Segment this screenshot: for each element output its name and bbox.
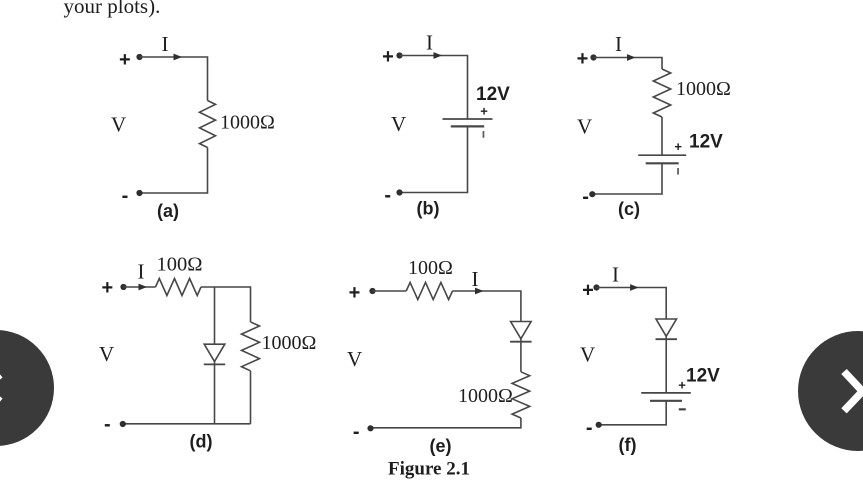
svg-text:-: - (122, 185, 129, 207)
svg-text:I: I (612, 263, 619, 287)
node dot + terminal (c) (590, 54, 596, 60)
svg-text:+: + (382, 46, 394, 68)
diode D3 (f) (656, 319, 678, 339)
node dot + terminal (a) (136, 54, 142, 60)
label + polarity B2 (674, 139, 682, 154)
svg-text:(b): (b) (417, 199, 440, 219)
svg-text:12V: 12V (689, 132, 723, 153)
label V source (c) (577, 115, 592, 139)
wire bottom (a) (140, 148, 208, 194)
node dot - terminal (f) (596, 422, 602, 428)
label + polarity B1 (480, 104, 488, 119)
svg-text:(d): (d) (190, 432, 213, 452)
node + terminal (d) (101, 277, 113, 299)
resistor R3 100&#937; (d) (156, 279, 202, 296)
battery B1 12V (b) (443, 119, 493, 126)
node dot - terminal (d) (120, 421, 126, 427)
wire right branch down (d) (250, 371, 252, 424)
svg-text:(a): (a) (157, 201, 179, 221)
svg-text:100Ω: 100Ω (408, 257, 453, 279)
label 12V value B2 (689, 132, 723, 153)
svg-text:I: I (426, 31, 433, 55)
label 1000&#937; value R4 (262, 332, 317, 354)
svg-text:-: - (582, 186, 589, 208)
svg-text:V: V (347, 347, 362, 371)
svg-text:I: I (162, 32, 169, 56)
wire top (b) (400, 56, 468, 120)
wire below D2 (e) (520, 339, 522, 372)
node + terminal (c) (577, 48, 589, 70)
wire top (f) (597, 288, 667, 320)
label - polarity B1 (483, 131, 485, 138)
node - terminal (a) (122, 185, 129, 207)
svg-text:1000Ω: 1000Ω (220, 112, 275, 134)
label 12V value B1 (476, 84, 510, 105)
node - terminal (f) (586, 417, 593, 439)
node - terminal (d) (104, 414, 111, 436)
node dot - terminal (b) (396, 189, 402, 195)
battery B3 12V (f) (641, 393, 691, 401)
label + polarity B3 (678, 377, 686, 392)
label V source (b) (391, 112, 406, 136)
label V source (f) (580, 343, 595, 367)
node dot + terminal (f) (593, 284, 599, 290)
wire below D1 (d) (214, 361, 216, 424)
svg-text:+: + (101, 277, 113, 299)
diode D2 (e) (510, 322, 531, 342)
svg-text:-: - (353, 421, 360, 443)
svg-text:+: + (349, 282, 361, 304)
node + terminal (e) (349, 282, 361, 304)
label (d) (190, 432, 213, 452)
resistor R1 1000&#937; (a) (200, 101, 216, 148)
resistor R5 100&#937; (e) (406, 282, 452, 299)
label I current (d) (138, 260, 145, 284)
svg-text:+: + (678, 377, 686, 392)
label V source (d) (99, 342, 114, 366)
svg-text:(f): (f) (619, 435, 637, 455)
label 12V value B3 (686, 366, 720, 387)
svg-text:I: I (472, 267, 479, 291)
carousel next button (798, 331, 863, 451)
svg-text:Figure 2.1: Figure 2.1 (388, 459, 470, 480)
svg-text:1000Ω: 1000Ω (458, 385, 513, 407)
svg-text:V: V (580, 343, 595, 367)
node dot - terminal (a) (136, 190, 142, 196)
label I current (e) (472, 267, 479, 291)
wire top right (d) (201, 287, 251, 322)
label 1000&#937; value R1 (220, 112, 275, 134)
node dot + terminal (b) (396, 52, 402, 58)
label I current (b) (426, 31, 433, 55)
svg-text:I: I (138, 260, 145, 284)
wire top right (e) (453, 291, 521, 322)
wire bottom (b) (400, 126, 468, 192)
wire bottom (e) (371, 418, 521, 428)
label - polarity B3 (679, 408, 686, 410)
node - terminal (c) (582, 186, 589, 208)
node dot - terminal (e) (367, 425, 373, 431)
svg-text:1000Ω: 1000Ω (676, 78, 731, 100)
wire top (c) (594, 58, 663, 70)
wire bottom (c) (592, 163, 662, 194)
svg-text:(c): (c) (618, 199, 640, 219)
diode D1 (d) (204, 344, 225, 364)
current arrow (f) (630, 284, 639, 291)
current arrow (b) (434, 52, 443, 59)
svg-text:12V: 12V (686, 366, 720, 387)
caption Figure 2.1 (388, 459, 470, 480)
wire bottom (f) (599, 401, 667, 425)
label 1000&#937; value R2 (676, 78, 731, 100)
label I current (c) (615, 32, 622, 56)
junction node (d) (214, 287, 216, 344)
label V source (a) (111, 113, 126, 137)
wire in to R3 (d) (124, 286, 156, 288)
current arrow (c) (627, 54, 636, 61)
resistor R4 1000&#937; (d) (242, 322, 260, 371)
current arrow (a) (174, 54, 183, 61)
label (b) (417, 199, 440, 219)
label (c) (618, 199, 640, 219)
current arrow (e) (475, 288, 484, 295)
label - polarity B2 (677, 168, 679, 175)
svg-text:V: V (99, 342, 114, 366)
wire in to R5 (e) (373, 290, 407, 292)
svg-text:I: I (615, 32, 622, 56)
label (f) (619, 435, 637, 455)
label I current (f) (612, 263, 619, 287)
svg-text:12V: 12V (476, 84, 510, 105)
svg-text:-: - (384, 184, 391, 206)
wire bottom (d) (123, 423, 251, 425)
svg-text:V: V (111, 113, 126, 137)
node + terminal (b) (382, 46, 394, 68)
svg-text:+: + (577, 48, 589, 70)
node dot + terminal (e) (369, 288, 375, 294)
wire below D3 (f) (665, 336, 667, 393)
node + terminal (a) (119, 49, 131, 71)
svg-text:+: + (582, 280, 594, 302)
resistor R6 1000&#937; (e) (512, 372, 530, 418)
svg-text:V: V (391, 112, 406, 136)
label I current (a) (162, 32, 169, 56)
svg-text:your plots).: your plots). (64, 0, 161, 18)
node - terminal (e) (353, 421, 360, 443)
label (a) (157, 201, 179, 221)
label 1000&#937; value R6 (458, 385, 513, 407)
svg-text:+: + (119, 49, 131, 71)
svg-text:-: - (104, 414, 111, 436)
label (e) (430, 436, 452, 456)
resistor R2 1000&#937; (c) (653, 69, 670, 117)
carousel prev button (0, 330, 54, 446)
label 100&#937; value R5 (408, 257, 453, 279)
svg-text:V: V (577, 115, 592, 139)
svg-text:(e): (e) (430, 436, 452, 456)
node dot + terminal (d) (120, 284, 126, 290)
battery B2 12V (c) (638, 155, 686, 163)
svg-text:1000Ω: 1000Ω (262, 332, 317, 354)
node + terminal (f) (582, 280, 594, 302)
svg-text:-: - (586, 417, 593, 439)
svg-text:100Ω: 100Ω (157, 254, 203, 276)
svg-text:+: + (674, 139, 682, 154)
text fragment: your plots). (64, 0, 161, 18)
svg-text:+: + (480, 104, 488, 119)
wire middle (c) (661, 117, 663, 155)
node - terminal (b) (384, 184, 391, 206)
label V source (e) (347, 347, 362, 371)
wire top (a) (140, 57, 208, 101)
node dot - terminal (c) (589, 191, 595, 197)
label 100&#937; value R3 (157, 254, 203, 276)
current arrow (d) (139, 284, 148, 291)
